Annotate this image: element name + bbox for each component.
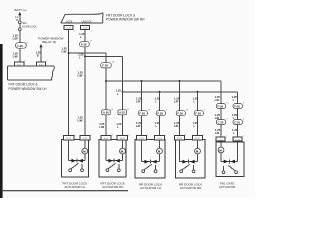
svg-text:B: B xyxy=(37,54,39,58)
svg-text:L/B: L/B xyxy=(215,131,219,135)
svg-text:F-28: F-28 xyxy=(195,112,201,116)
svg-text:C-20: C-20 xyxy=(234,120,240,124)
svg-text:F-28: F-28 xyxy=(102,64,108,68)
svg-text:L/B: L/B xyxy=(215,98,219,102)
svg-text:BATT (+): BATT (+) xyxy=(15,8,27,12)
svg-text:ACTUATOR LH: ACTUATOR LH xyxy=(64,185,85,189)
svg-text:L/W: L/W xyxy=(13,37,18,41)
svg-text:POWER WINDOW SW LH: POWER WINDOW SW LH xyxy=(9,87,48,91)
svg-text:F-28: F-28 xyxy=(17,44,23,48)
svg-text:L/R: L/R xyxy=(174,99,178,103)
svg-text:ACTUATOR RH: ACTUATOR RH xyxy=(180,186,201,190)
svg-text:F-28: F-28 xyxy=(218,104,224,108)
svg-text:L/W: L/W xyxy=(13,54,18,58)
svg-text:ACTUATOR LH: ACTUATOR LH xyxy=(140,186,161,190)
svg-text:A-25: A-25 xyxy=(119,111,125,115)
svg-text:L/R: L/R xyxy=(136,99,140,103)
svg-text:L/W: L/W xyxy=(62,49,67,53)
svg-text:F-28: F-28 xyxy=(177,112,183,116)
svg-text:POWER WINDOW SW RH: POWER WINDOW SW RH xyxy=(106,18,145,22)
svg-text:L/R: L/R xyxy=(136,124,140,128)
svg-text:F-28: F-28 xyxy=(157,112,163,116)
svg-text:UNLOCK: UNLOCK xyxy=(82,21,92,24)
svg-text:LOCK: LOCK xyxy=(66,21,73,24)
svg-text:L/W: L/W xyxy=(78,73,83,77)
svg-text:L/W: L/W xyxy=(78,118,83,122)
svg-text:ACTUATOR: ACTUATOR xyxy=(219,185,236,189)
svg-text:1.25: 1.25 xyxy=(116,88,122,92)
svg-text:ACTUATOR RH: ACTUATOR RH xyxy=(102,185,123,189)
svg-text:RELAY (4): RELAY (4) xyxy=(42,40,56,44)
svg-text:DOOR LOCK: DOOR LOCK xyxy=(22,25,37,28)
svg-text:F-28: F-28 xyxy=(139,112,145,116)
svg-text:A-26: A-26 xyxy=(103,111,109,115)
svg-text:L/R: L/R xyxy=(174,124,178,128)
svg-text:F-28: F-28 xyxy=(234,104,240,108)
svg-text:C-20: C-20 xyxy=(218,120,224,124)
svg-text:F-28: F-28 xyxy=(81,43,87,47)
svg-text:L/W: L/W xyxy=(99,125,104,129)
